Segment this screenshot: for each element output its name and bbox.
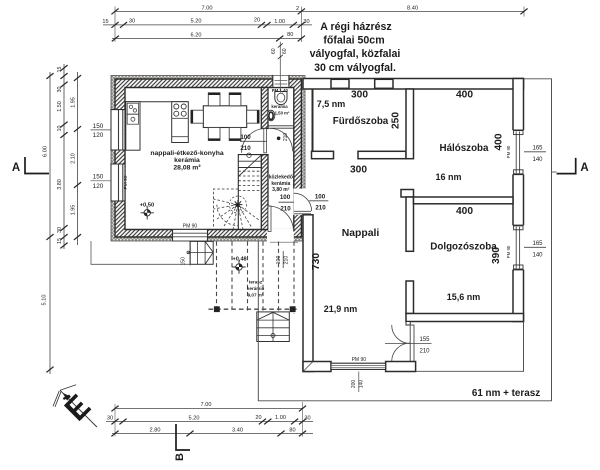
svg-text:kerámia: kerámia — [247, 286, 265, 291]
svg-text:60: 60 — [271, 48, 277, 54]
west steps at kitchen door — [187, 241, 213, 264]
svg-text:165: 165 — [532, 241, 543, 247]
svg-text:100: 100 — [240, 134, 251, 141]
svg-text:150: 150 — [93, 123, 104, 130]
interior wall kitchen/hall lower part (hatched) — [261, 155, 268, 230]
left dim line 1 (6.00) — [49, 72, 51, 241]
svg-text:8.40: 8.40 — [407, 6, 418, 12]
svg-text:5.10: 5.10 — [42, 295, 48, 306]
dolgozo bottom wall — [406, 314, 524, 322]
south wall terrace-door opening (hall) — [267, 229, 294, 242]
svg-text:15: 15 — [57, 67, 63, 73]
top wall window B — [375, 79, 393, 88]
svg-text:250: 250 — [391, 112, 402, 129]
svg-text:100: 100 — [315, 193, 326, 200]
top dim line 1 (7.00 / 8.40) — [115, 7, 524, 43]
nappali south window — [331, 363, 386, 369]
svg-text:5.20: 5.20 — [191, 19, 202, 25]
old house outer stucco band (stipple) — [111, 76, 305, 242]
svg-text:140: 140 — [532, 157, 543, 163]
svg-text:120: 120 — [93, 132, 104, 139]
nappali west wall — [303, 215, 313, 372]
svg-text:1.95: 1.95 — [70, 205, 76, 216]
interior wall kitchen/hall upper part (hatched) — [261, 88, 268, 129]
svg-text:PM 90: PM 90 — [506, 245, 511, 258]
new right wall — [513, 79, 524, 322]
svg-text:150: 150 — [93, 174, 104, 181]
svg-text:B: B — [174, 453, 186, 461]
svg-text:10: 10 — [57, 126, 63, 132]
svg-text:7,5 nm: 7,5 nm — [317, 99, 346, 109]
left dim line 3 — [77, 72, 79, 245]
svg-text:120: 120 — [93, 183, 104, 190]
svg-text:5.20: 5.20 — [189, 416, 200, 422]
svg-text:21,9 nm: 21,9 nm — [324, 304, 358, 314]
svg-text:Hálószoba: Hálószoba — [440, 143, 490, 154]
svg-text:PM 90: PM 90 — [123, 175, 129, 189]
nappali/dolgozo wall lower — [406, 281, 414, 314]
WC basin — [275, 92, 287, 105]
stair center star — [233, 200, 242, 209]
bottom dim guides — [115, 402, 303, 437]
dining table — [203, 106, 246, 128]
haloszoba door jamb — [401, 190, 414, 198]
window2 dim 165/140 — [524, 246, 546, 248]
svg-text:140: 140 — [532, 252, 543, 258]
bottom dim line 1 (7.00) — [115, 408, 303, 410]
north arrow — [53, 385, 97, 427]
svg-text:80: 80 — [289, 428, 295, 434]
new top wall — [303, 79, 524, 90]
bottom dim line 2 — [106, 421, 313, 423]
top dim line 2 — [103, 24, 312, 26]
svg-text:3.40: 3.40 — [232, 428, 243, 434]
svg-text:15: 15 — [57, 238, 63, 244]
bathroom east wall — [406, 89, 414, 159]
south wall window kitchen — [173, 230, 208, 242]
nappali south wall left piece — [303, 362, 331, 372]
stairs box — [213, 155, 261, 230]
terrace south steps — [257, 312, 290, 342]
sw corner mitre — [303, 362, 313, 372]
nappali south wall right piece — [386, 362, 416, 372]
svg-text:kerámia: kerámia — [271, 181, 290, 187]
svg-text:6.00: 6.00 — [42, 146, 48, 157]
svg-text:30: 30 — [304, 416, 310, 422]
south window leader + rotated 150/90 labels — [189, 241, 191, 266]
svg-text:2.10: 2.10 — [70, 153, 76, 164]
chair right — [247, 110, 259, 123]
svg-text:Dolgozószoba: Dolgozószoba — [430, 242, 497, 253]
stair winder rays — [214, 199, 260, 229]
svg-text:30: 30 — [129, 19, 135, 25]
right wall window 1 (haloszoba) — [512, 130, 525, 174]
WC south partition — [268, 126, 294, 128]
svg-text:A: A — [12, 162, 20, 174]
small dim line under terrace door — [270, 241, 298, 243]
nappali/dolgozo wall upper — [406, 197, 414, 251]
svg-text:210: 210 — [315, 204, 326, 211]
right wall window 2 (dolgozoszoba) — [512, 225, 525, 269]
terrace SE boundary — [416, 322, 524, 372]
svg-text:20: 20 — [255, 415, 261, 421]
svg-text:30: 30 — [57, 87, 63, 93]
svg-text:1.00: 1.00 — [275, 415, 286, 421]
svg-text:3,80 m²: 3,80 m² — [272, 187, 290, 193]
svg-text:főfalai 50cm: főfalai 50cm — [323, 35, 384, 47]
svg-text:3.80: 3.80 — [57, 179, 63, 190]
svg-text:400: 400 — [456, 90, 473, 101]
terrace door dim 155/210 — [385, 342, 432, 344]
svg-text:30: 30 — [57, 227, 63, 233]
right A section marker — [557, 158, 576, 174]
svg-text:200: 200 — [351, 380, 357, 389]
svg-text:2: 2 — [296, 6, 299, 12]
svg-text:28,08 m²: 28,08 m² — [173, 164, 201, 171]
terrace post right — [290, 306, 296, 312]
svg-text:100: 100 — [280, 194, 291, 201]
svg-text:közlekedő: közlekedő — [269, 175, 293, 181]
svg-text:1.95: 1.95 — [70, 97, 76, 108]
stair winder arcs — [217, 205, 238, 226]
chair top-right — [229, 93, 241, 106]
kitchen stove unit — [172, 102, 189, 143]
bathroom south wall right piece — [358, 151, 406, 158]
svg-text:7.00: 7.00 — [201, 402, 212, 408]
svg-text:155: 155 — [419, 337, 430, 343]
chimney flue leader — [279, 42, 281, 93]
svg-text:140: 140 — [359, 380, 365, 389]
left dim line 5.10 — [49, 241, 51, 374]
chair bottom-right — [229, 128, 241, 141]
hall to terrace door leaf+arc — [268, 206, 271, 232]
svg-text:165: 165 — [532, 145, 543, 151]
svg-text:30: 30 — [107, 416, 113, 422]
svg-text:kerámia: kerámia — [271, 104, 288, 109]
svg-text:1,50 m²: 1,50 m² — [275, 111, 290, 116]
bathroom west wall line — [312, 89, 314, 159]
terrace door jamb stub — [406, 322, 410, 326]
top dim line 3 (6.20 / 80) — [112, 38, 301, 40]
svg-text:15: 15 — [102, 19, 108, 25]
svg-text:kerámia: kerámia — [174, 157, 200, 164]
svg-text:730: 730 — [311, 253, 322, 270]
svg-text:400: 400 — [456, 206, 473, 217]
svg-text:210: 210 — [280, 206, 291, 213]
svg-text:A: A — [580, 162, 588, 174]
terrace door rotated labels 100/210 — [282, 251, 284, 268]
svg-text:210: 210 — [419, 349, 430, 355]
old house main walls (hatched) — [115, 79, 301, 237]
left dim line 2 — [63, 64, 65, 249]
haloszoba/dolgozo wall — [414, 197, 514, 204]
svg-text:1.50: 1.50 — [57, 101, 63, 112]
kitchen door leaf+arc — [264, 129, 267, 153]
bottom dim line 3 — [112, 433, 313, 435]
landing outline — [91, 241, 190, 264]
svg-text:nappali-étkező-konyha: nappali-étkező-konyha — [150, 150, 223, 157]
svg-text:Fürdőszoba: Fürdőszoba — [333, 116, 389, 127]
svg-text:9,07 m²: 9,07 m² — [248, 293, 264, 298]
svg-text:1.00: 1.00 — [274, 19, 285, 25]
svg-text:300: 300 — [351, 90, 368, 101]
vent window above WC in top wall — [273, 75, 289, 87]
nappali terrace double door — [392, 325, 414, 362]
left A section marker — [25, 157, 49, 174]
svg-text:PM 90: PM 90 — [352, 357, 367, 363]
terrace dashed columns lines — [217, 242, 295, 315]
old house outer boundary line — [111, 76, 305, 242]
chair left — [191, 110, 203, 123]
B section marker — [176, 424, 190, 450]
svg-text:16 nm: 16 nm — [435, 172, 461, 182]
svg-text:210: 210 — [283, 256, 289, 265]
svg-text:7.00: 7.00 — [202, 6, 213, 12]
hall to nappali door arc — [294, 193, 312, 211]
svg-text:60: 60 — [282, 48, 288, 54]
svg-text:80: 80 — [287, 32, 293, 38]
svg-text:61 nm + terasz: 61 nm + terasz — [472, 388, 540, 399]
bathroom south wall left piece — [312, 151, 334, 158]
svg-text:terasz: terasz — [249, 280, 263, 285]
svg-text:15,6 nm: 15,6 nm — [447, 292, 481, 302]
window W1 left wall — [110, 110, 125, 150]
svg-text:A régi házrész: A régi házrész — [320, 21, 391, 33]
window1 dim 165/140 — [524, 151, 546, 153]
top wall window A — [331, 79, 349, 88]
svg-text:20: 20 — [254, 18, 260, 24]
kitchen counter top edge — [126, 101, 189, 103]
svg-text:PM 90: PM 90 — [183, 223, 198, 229]
svg-text:390: 390 — [491, 247, 502, 264]
chair top-left — [208, 93, 220, 106]
svg-text:210: 210 — [283, 133, 289, 142]
WC door arc — [270, 128, 293, 151]
svg-text:30: 30 — [303, 19, 309, 25]
svg-text:300: 300 — [350, 165, 367, 176]
svg-text:400: 400 — [494, 133, 505, 150]
svg-text:Nappali: Nappali — [342, 228, 380, 239]
eaves outline — [258, 79, 551, 401]
WC toilet — [267, 110, 275, 121]
kitchen sink unit — [126, 102, 140, 151]
svg-text:30 cm vályogfal.: 30 cm vályogfal. — [314, 62, 396, 74]
svg-text:+0,48: +0,48 — [233, 257, 247, 263]
svg-text:210: 210 — [240, 145, 251, 152]
terrace post left — [214, 306, 220, 312]
terrace dashed south edge — [209, 308, 298, 310]
right wall door opening to Nappali — [293, 189, 305, 216]
svg-text:vályogfal, közfalai: vályogfal, közfalai — [310, 48, 401, 60]
svg-text:2.80: 2.80 — [150, 428, 161, 434]
svg-text:6.20: 6.20 — [191, 33, 202, 39]
svg-text:PM 90: PM 90 — [506, 145, 511, 158]
left window labels 150/120 — [91, 129, 112, 131]
window W2 left wall — [110, 164, 125, 201]
chair bottom-left — [208, 128, 220, 141]
